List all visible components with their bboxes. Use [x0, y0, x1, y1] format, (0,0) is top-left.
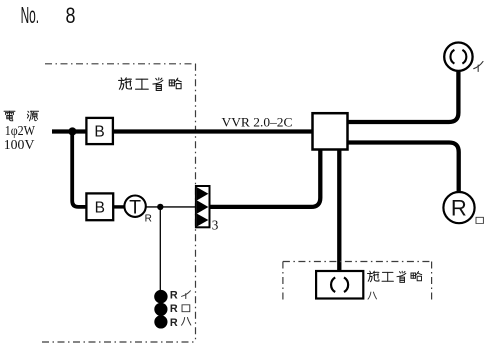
- lamp R (ha) filled circle: [154, 315, 167, 328]
- node: junction dot on timer line: [157, 204, 163, 210]
- svg-text:1φ2W: 1φ2W: [5, 123, 36, 138]
- breaker B1 box: [86, 118, 113, 144]
- ceiling rosette round (i): [444, 43, 472, 71]
- svg-text:R: R: [170, 303, 178, 315]
- timer TR circle: [124, 196, 151, 225]
- wire: junction box down to rosette (ha): [337, 149, 341, 271]
- svg-text:100V: 100V: [4, 137, 35, 152]
- sekou-shouryaku label (top box): [119, 78, 182, 91]
- wire: B2 to timer: [113, 205, 124, 208]
- wire: drop to lamps (thin): [159, 207, 161, 290]
- svg-text:No.: No.: [21, 2, 39, 28]
- label R-i: [170, 290, 191, 302]
- svg-text:R: R: [451, 196, 467, 221]
- breaker B2 box: [86, 193, 113, 220]
- label R-ro: [170, 303, 190, 315]
- construction-omitted dashed box (bottom right): [283, 262, 432, 304]
- junction box: [313, 113, 348, 149]
- wire: B1 to junction box with VVR label: [113, 129, 313, 133]
- svg-text:R: R: [170, 317, 178, 329]
- svg-text:T: T: [129, 196, 141, 218]
- svg-text:3: 3: [212, 217, 219, 232]
- wire: timer to 3-wire connector (thin): [146, 206, 196, 208]
- ceiling rosette angular (ha): [316, 271, 363, 299]
- svg-text:B: B: [94, 124, 104, 141]
- wire: power feed horizontal: [52, 129, 86, 133]
- wire: power drop to breaker B2: [72, 132, 86, 207]
- wire: junction box to ceiling rosette (i): [348, 71, 459, 122]
- svg-text:VVR 2.0–2C: VVR 2.0–2C: [222, 116, 293, 130]
- svg-text:R: R: [145, 214, 152, 225]
- svg-text:R: R: [170, 290, 178, 302]
- label R-ha: [170, 317, 191, 329]
- svg-text:8: 8: [66, 3, 76, 28]
- title No. 8: [21, 2, 76, 28]
- wire: connector to junction box (thick, up): [210, 149, 321, 207]
- label katakana ha (bottom box): [368, 292, 377, 299]
- construction-omitted dashed box (left): [42, 64, 196, 342]
- sekou-shouryaku label (bottom box): [368, 271, 422, 282]
- lamp R (i) filled circle: [154, 290, 167, 303]
- connector 3-wire symbol: [196, 186, 219, 232]
- label katakana i: [474, 61, 483, 71]
- wire: junction box to lamp receptacle R (ro): [348, 143, 459, 192]
- lamp receptacle R (ro): [443, 192, 474, 223]
- node: power junction dot: [68, 127, 76, 135]
- label katakana ro: [476, 217, 483, 223]
- svg-text:B: B: [95, 199, 105, 216]
- power source label DENGEN 1phi2W 100V: [4, 111, 39, 152]
- lamp R (ro) filled circle: [154, 303, 167, 316]
